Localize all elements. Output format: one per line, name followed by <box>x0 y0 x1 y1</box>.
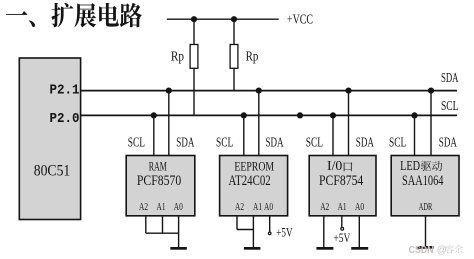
svg-text:SDA: SDA <box>176 134 194 149</box>
svg-text:+5V: +5V <box>276 225 293 240</box>
svg-text:@: @ <box>437 245 447 256</box>
svg-text:A1: A1 <box>253 202 262 213</box>
svg-text:SAA1064: SAA1064 <box>402 173 444 189</box>
svg-text:A0: A0 <box>264 202 273 213</box>
svg-text:80C51: 80C51 <box>34 163 71 180</box>
svg-text:A1: A1 <box>157 202 166 213</box>
svg-text:AT24C02: AT24C02 <box>229 173 271 189</box>
svg-text:EEPROM: EEPROM <box>234 158 274 173</box>
svg-text:Rp: Rp <box>171 48 184 63</box>
svg-text:SDA: SDA <box>441 70 459 85</box>
svg-text:SCL: SCL <box>389 134 406 149</box>
svg-text:SCL: SCL <box>441 98 459 113</box>
svg-text:P2.0: P2.0 <box>50 112 80 127</box>
svg-text:SCL: SCL <box>216 134 233 149</box>
svg-text:P2.1: P2.1 <box>50 84 80 99</box>
svg-text:CSDN: CSDN <box>409 245 434 256</box>
svg-text:LED: LED <box>400 158 420 173</box>
svg-text:SDA: SDA <box>356 134 374 149</box>
svg-text:I/0: I/0 <box>327 158 343 173</box>
svg-text:+VCC: +VCC <box>287 11 313 26</box>
svg-text:A2: A2 <box>139 202 148 213</box>
svg-text:A2: A2 <box>235 202 244 213</box>
svg-text:Rp: Rp <box>246 48 259 63</box>
svg-text:A1: A1 <box>338 202 347 213</box>
svg-text:+5V: +5V <box>333 230 350 245</box>
svg-text:SCL: SCL <box>306 134 323 149</box>
svg-text:ADR: ADR <box>419 202 433 213</box>
svg-text:A0: A0 <box>174 202 183 213</box>
svg-text:PCF8570: PCF8570 <box>137 173 181 189</box>
svg-text:SCL: SCL <box>128 134 145 149</box>
svg-text:SDA: SDA <box>266 134 284 149</box>
svg-text:RAM: RAM <box>149 158 167 173</box>
svg-text:SDA: SDA <box>439 134 457 149</box>
svg-text:A0: A0 <box>355 202 364 213</box>
svg-text:A2: A2 <box>320 202 329 213</box>
svg-text:PCF8754: PCF8754 <box>319 173 364 189</box>
